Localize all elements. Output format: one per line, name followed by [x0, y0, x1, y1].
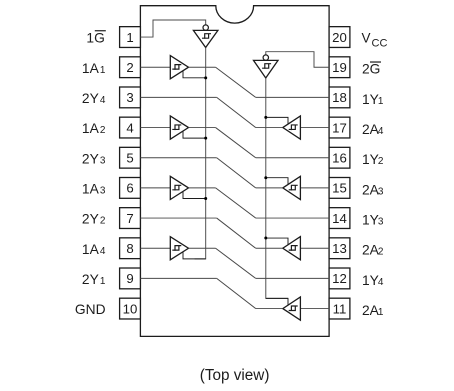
svg-text:1: 1	[378, 307, 384, 318]
wire 2Y4 crossover diagonal	[217, 97, 256, 127]
label pin 18	[362, 92, 384, 107]
wire 1Y4 crossover diagonal	[216, 248, 256, 278]
buffer channel 1A4	[170, 237, 188, 260]
svg-text:1A: 1A	[82, 121, 100, 136]
pin 19 box	[329, 57, 350, 78]
pin 10 box	[120, 298, 141, 319]
svg-text:V: V	[362, 31, 371, 46]
label pin 20	[362, 31, 388, 50]
wire 2Y3 crossover diagonal	[217, 158, 256, 188]
svg-text:GND: GND	[75, 302, 106, 317]
buffer channel 1A3	[170, 176, 188, 199]
wire 1Y4 to pin 12	[256, 277, 329, 279]
wire pin 4 input	[140, 127, 170, 129]
enable gate 1OE (pin 1)	[193, 25, 218, 48]
wire pin 1 to 1OE gate	[140, 20, 205, 37]
svg-text:1Y: 1Y	[362, 213, 379, 228]
svg-text:1A: 1A	[82, 61, 100, 76]
svg-text:1: 1	[100, 65, 106, 76]
label pin 7	[82, 212, 106, 227]
svg-text:11: 11	[333, 301, 347, 316]
wire pin 11 input	[300, 308, 329, 310]
pin 16 box	[329, 147, 350, 168]
junction dot 2OE row 3	[264, 237, 267, 240]
svg-text:2: 2	[100, 125, 106, 136]
svg-text:18: 18	[332, 90, 347, 105]
svg-text:2Y: 2Y	[82, 212, 99, 227]
control wire buffer 2A3	[266, 178, 288, 185]
label pin 5	[82, 151, 106, 166]
svg-text:3: 3	[378, 186, 384, 197]
junction dot 1OE row 1	[204, 76, 207, 79]
svg-text:15: 15	[332, 181, 347, 196]
wire 2Y1 output horizontal	[256, 308, 283, 310]
svg-text:3: 3	[100, 186, 106, 197]
enable net 1OE vertical	[195, 48, 206, 259]
svg-text:3: 3	[378, 217, 384, 228]
pin 14 box	[329, 208, 350, 229]
wire pin 19 to 2OE gate	[266, 52, 329, 68]
wire 1Y1 output horizontal	[189, 66, 216, 68]
label pin 19	[362, 62, 381, 77]
wire 2Y2 output horizontal	[256, 247, 283, 249]
pin 5 box	[120, 147, 141, 168]
label pin 13	[362, 243, 384, 258]
label pin 1	[86, 31, 105, 46]
control wire buffer 2A4	[266, 117, 288, 124]
junction dot 2OE row 1	[264, 116, 267, 119]
wire 2Y1 to pin 9	[140, 277, 216, 279]
svg-text:2: 2	[126, 60, 133, 75]
svg-text:17: 17	[332, 120, 347, 135]
svg-text:10: 10	[123, 301, 138, 316]
wire 2Y1 crossover diagonal	[217, 278, 256, 308]
wire 1Y3 crossover diagonal	[216, 188, 256, 218]
label pin 2	[82, 61, 106, 76]
svg-text:14: 14	[332, 211, 347, 226]
svg-text:4: 4	[378, 126, 384, 137]
buffer channel 2A2	[283, 237, 301, 260]
wire 1Y1 crossover diagonal	[216, 67, 256, 97]
pin 11 box	[329, 298, 350, 319]
svg-text:1G: 1G	[86, 31, 104, 46]
enable net 2OE vertical	[266, 78, 288, 298]
svg-text:4: 4	[378, 277, 384, 288]
pin 2 box	[120, 57, 141, 78]
svg-text:1Y: 1Y	[362, 273, 379, 288]
label pin 9	[82, 272, 106, 287]
label pin 12	[362, 273, 384, 288]
buffer channel 2A1	[283, 297, 301, 320]
svg-text:5: 5	[126, 150, 133, 165]
svg-text:9: 9	[126, 271, 133, 286]
label pin 4	[82, 121, 106, 136]
pin 15 box	[329, 178, 350, 199]
svg-text:16: 16	[332, 150, 347, 165]
label pin 11	[362, 303, 384, 318]
buffer channel 2A4	[283, 116, 301, 139]
junction dot 1OE row 2	[204, 137, 207, 140]
wire 1Y3 output horizontal	[189, 187, 216, 189]
svg-text:1A: 1A	[82, 182, 100, 197]
pin 9 box	[120, 268, 141, 289]
wire 2Y4 output horizontal	[256, 127, 283, 129]
pin 6 box	[120, 178, 141, 199]
svg-text:2: 2	[100, 216, 106, 227]
svg-text:3: 3	[100, 155, 106, 166]
pin 20 box	[329, 27, 350, 48]
wire 1Y2 to pin 16	[256, 157, 329, 159]
pin 13 box	[329, 238, 350, 259]
label pin 17	[362, 122, 384, 137]
wire 2Y2 crossover diagonal	[217, 218, 256, 248]
wire 2Y2 to pin 7	[140, 217, 216, 219]
wire pin 13 input	[300, 247, 329, 249]
svg-text:2Y: 2Y	[82, 151, 99, 166]
pin 1 box	[120, 27, 141, 48]
pin 17 box	[329, 117, 350, 138]
control wire buffer 1A1	[183, 71, 206, 78]
pin 7 box	[120, 208, 141, 229]
wire 1Y1 to pin 18	[256, 96, 329, 98]
junction dot 1OE row 3	[204, 197, 207, 200]
svg-text:2: 2	[378, 156, 384, 167]
enable gate 2OE (pin 19)	[254, 55, 279, 78]
wire 2Y3 to pin 5	[140, 157, 216, 159]
wire pin 17 input	[300, 127, 329, 129]
label pin 3	[82, 91, 106, 106]
svg-text:6: 6	[126, 181, 133, 196]
pin 3 box	[120, 87, 141, 108]
svg-text:7: 7	[126, 211, 133, 226]
control wire buffer 1A2	[183, 131, 206, 138]
svg-text:1A: 1A	[82, 242, 100, 257]
svg-text:4: 4	[100, 95, 106, 106]
pin 8 box	[120, 238, 141, 259]
label pin 16	[362, 152, 384, 167]
svg-text:2G: 2G	[362, 62, 380, 77]
pin 18 box	[329, 87, 350, 108]
buffer channel 2A3	[283, 176, 301, 199]
label pin 6	[82, 182, 106, 197]
wire pin 8 input	[140, 247, 170, 249]
svg-text:CC: CC	[372, 38, 388, 50]
label pin 14	[362, 213, 384, 228]
wire pin 2 input	[140, 66, 170, 68]
pin 4 box	[120, 117, 141, 138]
svg-text:20: 20	[332, 30, 347, 45]
svg-text:1: 1	[100, 276, 106, 287]
control wire buffer 2A1	[266, 298, 288, 305]
svg-text:1: 1	[378, 96, 384, 107]
svg-text:13: 13	[332, 241, 347, 256]
svg-text:(Top view): (Top view)	[200, 367, 270, 384]
IC package outline U1	[140, 6, 329, 337]
svg-text:8: 8	[126, 241, 133, 256]
buffer channel 1A1	[170, 56, 188, 79]
control wire buffer 1A3	[183, 192, 206, 199]
svg-text:1: 1	[126, 30, 133, 45]
wire pin 15 input	[300, 187, 329, 189]
svg-text:4: 4	[126, 120, 133, 135]
svg-text:1Y: 1Y	[362, 92, 379, 107]
wire 2Y4 to pin 3	[140, 96, 216, 98]
wire pin 6 input	[140, 187, 170, 189]
svg-text:19: 19	[332, 60, 347, 75]
pin 12 box	[329, 268, 350, 289]
svg-text:1Y: 1Y	[362, 152, 379, 167]
svg-text:2Y: 2Y	[82, 272, 99, 287]
buffer channel 1A2	[170, 116, 188, 139]
svg-text:3: 3	[126, 90, 133, 105]
label pin 8	[82, 242, 106, 257]
wire 1Y4 output horizontal	[189, 247, 216, 249]
control wire buffer 2A2	[266, 238, 288, 245]
control wire buffer 1A4	[183, 252, 206, 259]
wire 1Y2 crossover diagonal	[216, 128, 256, 158]
junction dot 2OE row 2	[264, 176, 267, 179]
wire 1Y3 to pin 14	[256, 217, 329, 219]
label pin 15	[362, 182, 384, 197]
svg-text:2Y: 2Y	[82, 91, 99, 106]
svg-text:4: 4	[100, 246, 106, 257]
wire 1Y2 output horizontal	[189, 127, 216, 129]
wire 2Y3 output horizontal	[256, 187, 283, 189]
svg-text:2: 2	[378, 247, 384, 258]
svg-text:12: 12	[332, 271, 347, 286]
